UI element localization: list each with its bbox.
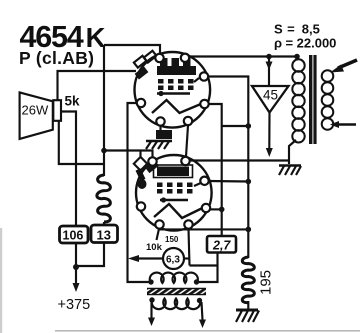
lower tube grid cap diamond: [134, 157, 147, 171]
wire heater to 6,3 meter: [137, 257, 163, 259]
wire with arrow feeding 45 triangle: [268, 57, 270, 87]
wire speaker bottom to 104-rail: [59, 121, 104, 164]
ground below upper tube: [146, 141, 172, 149]
node junction above 45 triangle: [266, 54, 272, 60]
mains primary lead right with arrow: [202, 302, 203, 320]
ground below output transformer: [279, 166, 301, 176]
resistor vertical squiggle on 104-rail: [97, 175, 111, 222]
wire 106 box down to +375 node: [75, 243, 77, 285]
svg-text:195: 195: [258, 270, 275, 295]
upper tube pins: [137, 54, 209, 126]
svg-text:S=8,5: S=8,5: [274, 22, 320, 37]
lower tube pins: [137, 157, 210, 229]
svg-text:45: 45: [263, 88, 278, 103]
wire 13 box down and left to +375 node: [103, 222, 105, 225]
box 13 (screen current): [91, 225, 118, 243]
wire lower tube cathode pin down to heater line: [189, 229, 190, 266]
lower tube pin filled: [138, 179, 147, 189]
upper tube grid-cap tilted contacts: [134, 51, 157, 80]
wire heater node link left: [190, 264, 218, 266]
wire 2,7 box down to heater node: [197, 253, 218, 283]
lower tube anode plate: [154, 165, 193, 178]
heater arrow at rail 127: [128, 255, 139, 262]
heater voltage circle 6,3: [163, 248, 184, 269]
wire speaker top to grid cap of upper tube: [58, 71, 137, 100]
wire upper tube pin right then down rail 222: [209, 104, 222, 236]
mains transformer core (hatched): [147, 288, 206, 295]
wire lower tube screen pin to 248 rail: [209, 180, 249, 183]
scan artifact left edge: [0, 228, 2, 333]
wire link 222 to 248 rails: [222, 125, 249, 127]
wire upper tube heater pin down to lower tube: [186, 126, 188, 157]
lower tube envelope: [136, 155, 212, 231]
secondary top arrow: [338, 60, 357, 68]
wire primary top to node: [297, 57, 299, 61]
lower tube heater chevron: [154, 204, 204, 218]
svg-text:150: 150: [165, 235, 179, 244]
wire junction to grid diamond of lower tube: [104, 151, 153, 158]
mains transformer heater winding (top): [150, 273, 198, 283]
lower tube grid cap tilted contact: [145, 160, 159, 173]
wire lower tube pin to smudge labels: [157, 229, 160, 240]
ground below 195: [236, 310, 259, 322]
lower tube grid dashes: [157, 183, 193, 194]
svg-text:+375: +375: [58, 297, 91, 313]
svg-text:ρ=22.000: ρ=22.000: [274, 36, 336, 51]
wire upper tube screen pin right then down rail 248: [208, 77, 248, 259]
svg-text:13: 13: [97, 228, 111, 243]
wire speaker right to 106-rail: [61, 112, 76, 227]
wire long cathode return y=229: [160, 228, 249, 230]
wire 104-rail vertical: [103, 45, 105, 176]
svg-text:P (cl.AB): P (cl.AB): [19, 48, 94, 68]
wire upper anode pin to output line: [189, 55, 297, 57]
svg-text:5k: 5k: [65, 94, 81, 109]
mains primary lead left with arrow: [150, 301, 152, 318]
output transformer primary coil: [292, 59, 304, 142]
lower tube cathode line: [160, 199, 188, 201]
box 106 (anode current): [60, 226, 89, 243]
wire upper tube cathode pin to ground: [159, 126, 161, 130]
output transformer secondary coil: [322, 70, 334, 130]
wire cathode line of lower tube (y 160) to output transformer bottom: [189, 159, 289, 161]
svg-text:26W: 26W: [22, 103, 49, 118]
loudspeaker driver rectangle: [53, 100, 61, 121]
svg-text:10k: 10k: [146, 242, 163, 253]
upper tube heater chevron: [152, 100, 202, 113]
upper tube anode (blackened plate with teeth): [157, 58, 196, 75]
wire primary bottom to ground: [289, 140, 296, 164]
lower tube grid lead to pin: [194, 182, 203, 186]
upper tube grid lead to pin: [194, 78, 199, 82]
wire anode rail corner to upper tube top-left pin: [104, 45, 160, 55]
upper tube grid dashes: [158, 79, 194, 90]
node +375 junction: [73, 264, 79, 270]
output transformer core: [309, 55, 312, 144]
loudspeaker 26W cone: [20, 92, 53, 138]
svg-text:6,3: 6,3: [166, 255, 180, 266]
mains transformer primary winding (bottom): [152, 299, 200, 310]
arrow to +375 supply: [73, 283, 80, 292]
scan artifact bottom edge: [55, 330, 360, 332]
box 2,7: [207, 236, 236, 253]
svg-text:106: 106: [63, 229, 84, 243]
node junction on 104-rail: [101, 148, 107, 154]
upper tube cathode line: [157, 92, 190, 94]
secondary bottom arrow: [338, 123, 356, 125]
upper tube envelope: [135, 52, 211, 128]
wire with arrow from triangle apex to cathode line: [268, 113, 270, 150]
wire 195 to ground: [247, 301, 249, 310]
wire 6,3 meter to right: [184, 257, 190, 259]
wire lower tube pin to 222 rail: [210, 208, 222, 210]
node junction at transformer primary top: [294, 54, 300, 60]
grid cap lead wedge: [138, 170, 143, 181]
resistor 195 squiggle on 248 rail: [242, 257, 254, 303]
cathode contact block upper tube: [156, 130, 172, 139]
wire upper tube grid-return pin left then down rail 127: [128, 103, 151, 282]
svg-text:2,7: 2,7: [212, 239, 231, 253]
amplifier triangle 45: [252, 86, 289, 113]
